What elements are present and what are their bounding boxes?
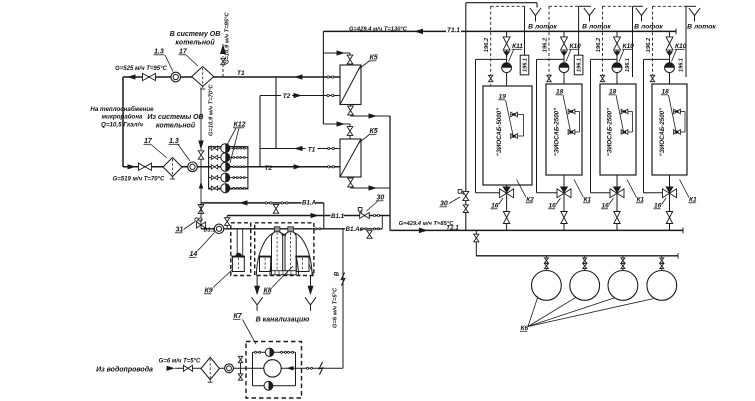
svg-text:Т2.1: Т2.1 bbox=[446, 224, 459, 231]
svg-text:Т1: Т1 bbox=[237, 70, 245, 77]
svg-text:196.2: 196.2 bbox=[484, 37, 490, 52]
svg-text:В канализацию: В канализацию bbox=[256, 317, 310, 324]
svg-text:G=6 м/ч Т=5°С: G=6 м/ч Т=5°С bbox=[159, 359, 201, 365]
svg-text:В1.Ае: В1.Ае bbox=[346, 226, 364, 233]
svg-text:котельной: котельной bbox=[175, 39, 215, 47]
svg-text:котельной: котельной bbox=[156, 122, 196, 130]
svg-text:196.1: 196.1 bbox=[679, 58, 685, 72]
svg-text:196.1: 196.1 bbox=[523, 58, 529, 72]
svg-text:Т1: Т1 bbox=[308, 146, 316, 153]
svg-text:Т2: Т2 bbox=[265, 165, 273, 172]
svg-text:В систему ОВ: В систему ОВ bbox=[170, 31, 221, 38]
svg-text:196.1: 196.1 bbox=[625, 58, 631, 72]
svg-text:В лоток: В лоток bbox=[687, 24, 716, 31]
svg-text:Из системы ОВ: Из системы ОВ bbox=[147, 114, 203, 121]
svg-text:В лоток: В лоток bbox=[528, 24, 557, 31]
svg-text:“ЗИОСАБ-2500”: “ЗИОСАБ-2500” bbox=[554, 107, 561, 156]
svg-text:196.2: 196.2 bbox=[646, 37, 652, 52]
svg-text:В лоток: В лоток bbox=[634, 24, 663, 31]
svg-text:В1.1: В1.1 bbox=[331, 213, 345, 220]
svg-text:“ЗИОСАБ-2500”: “ЗИОСАБ-2500” bbox=[659, 107, 666, 156]
svg-text:В лоток: В лоток bbox=[582, 24, 611, 31]
svg-text:196.1: 196.1 bbox=[577, 58, 583, 72]
svg-text:196.2: 196.2 bbox=[543, 37, 549, 52]
svg-text:На теплоснабжение: На теплоснабжение bbox=[90, 106, 154, 113]
svg-text:G=10,9 м/ч Т=70°С: G=10,9 м/ч Т=70°С bbox=[209, 84, 215, 136]
svg-text:G=6 м/ч Т=5°С: G=6 м/ч Т=5°С bbox=[333, 287, 339, 328]
svg-text:Q=10,5 Гкал/ч: Q=10,5 Гкал/ч bbox=[101, 122, 143, 129]
svg-text:В: В bbox=[335, 271, 341, 276]
svg-text:микрорайона: микрорайона bbox=[101, 114, 143, 121]
svg-text:G=429.4 м/ч Т=130°С: G=429.4 м/ч Т=130°С bbox=[349, 26, 408, 32]
svg-text:G=519 м/ч Т=70°С: G=519 м/ч Т=70°С bbox=[113, 177, 165, 183]
svg-text:Т2: Т2 bbox=[283, 93, 291, 100]
svg-text:В1.А: В1.А bbox=[302, 200, 317, 207]
svg-text:“ЗИОСАБ-2500”: “ЗИОСАБ-2500” bbox=[607, 107, 614, 156]
svg-text:В1.1: В1.1 bbox=[204, 227, 216, 233]
svg-text:196.2: 196.2 bbox=[596, 37, 602, 52]
svg-text:G=525 м/ч Т=95°С: G=525 м/ч Т=95°С bbox=[115, 66, 167, 72]
svg-text:Т1.1: Т1.1 bbox=[447, 27, 460, 34]
svg-text:“ЗИОСАБ-5000”: “ЗИОСАБ-5000” bbox=[496, 107, 503, 156]
svg-text:Из водопровода: Из водопровода bbox=[96, 366, 153, 374]
svg-text:G=10,9 м/ч Т=95°С: G=10,9 м/ч Т=95°С bbox=[225, 12, 231, 64]
